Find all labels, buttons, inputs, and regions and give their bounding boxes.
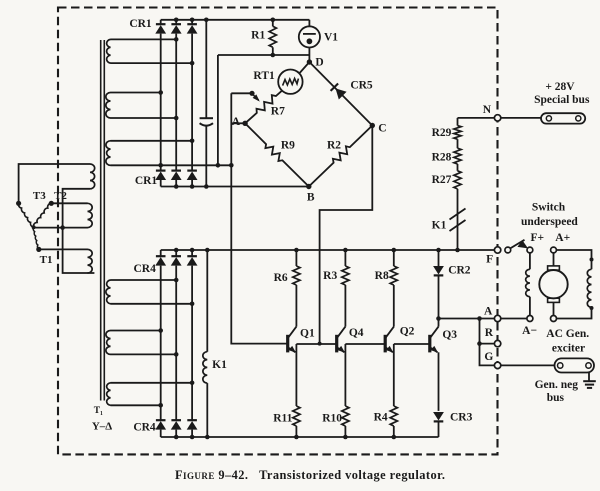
wire L3 bottom lead	[111, 404, 161, 406]
diode CR4 phase-2 top	[171, 250, 182, 420]
svg-text:R10: R10	[322, 413, 342, 425]
resistor R10	[342, 406, 349, 437]
winding P2 (primary middle)	[88, 203, 93, 227]
terminal N	[494, 115, 500, 121]
bus bar Gen neg bus	[555, 358, 595, 372]
switch blade	[510, 240, 528, 249]
node U3 lead to sense wire	[229, 163, 234, 168]
wire P2 bottom lead from star center	[34, 227, 88, 229]
label underspeed	[521, 216, 578, 228]
svg-text:Q2: Q2	[400, 326, 415, 338]
wire Q3 collector to CR2/A junction	[438, 319, 440, 327]
svg-text:underspeed: underspeed	[521, 216, 578, 228]
svg-text:Switch: Switch	[532, 201, 566, 213]
node rail-capacitor column	[204, 18, 209, 23]
coil T1 winding (Y leg)	[33, 227, 39, 249]
wire Q3 emitter vertical	[438, 352, 440, 411]
wire K1 coil column upper	[206, 250, 208, 352]
wire link A-R	[480, 319, 495, 344]
node rail-CR2	[436, 248, 441, 253]
diode CR5 (on C-D arm, pointing to D)	[331, 84, 347, 100]
svg-text:T3: T3	[33, 190, 46, 202]
label K1 (contact)	[432, 220, 447, 232]
winding L2 (secondary)	[106, 331, 111, 355]
node link at R	[477, 341, 482, 346]
transformer T1 core (double line)	[101, 40, 105, 401]
resistor R2 on C-B arm	[309, 126, 373, 187]
label Special bus	[534, 94, 590, 106]
label bus	[547, 392, 565, 404]
arrow R7 wiper	[253, 94, 260, 101]
svg-text:CR1: CR1	[129, 18, 152, 30]
node on series coil wire (bottom)	[590, 306, 594, 310]
svg-text:R2: R2	[327, 140, 341, 152]
svg-text:A: A	[232, 116, 241, 128]
brush bottom	[548, 298, 560, 302]
node rail-K1 column	[205, 248, 210, 253]
svg-text:R: R	[485, 327, 494, 339]
svg-text:exciter: exciter	[552, 343, 585, 355]
label R6	[274, 272, 288, 284]
resistor R4	[390, 406, 397, 437]
diode CR1 phase-1 top	[155, 20, 166, 171]
label CR1 (bottom row)	[135, 175, 158, 187]
wire L2 bottom lead	[111, 353, 177, 355]
node junction on link vertical	[60, 225, 65, 230]
armature of AC generator exciter	[539, 270, 567, 298]
svg-text:N: N	[483, 104, 492, 116]
svg-text:K1: K1	[212, 359, 227, 371]
diode CR1 phase-2 bottom	[171, 171, 182, 187]
svg-text:D: D	[315, 57, 323, 69]
label G	[484, 351, 493, 363]
wire T3 riser and P1 top lead	[19, 164, 90, 203]
node D	[307, 59, 312, 64]
winding P1 (primary top)	[90, 164, 95, 189]
node bottom rail junction	[205, 435, 210, 440]
diode CR4 phase-3 bottom	[187, 420, 198, 437]
resistor R11	[293, 406, 300, 437]
terminal circle on A- line (field)	[527, 316, 533, 322]
node neg rail col3	[190, 184, 195, 189]
wire U3 bottom lead	[111, 164, 232, 166]
ground symbol	[583, 373, 596, 388]
label R4	[374, 411, 388, 423]
winding L1 (secondary)	[106, 280, 111, 304]
label Q4	[349, 327, 364, 339]
node T1 terminal dot	[36, 247, 41, 252]
wire drop from R1 node to phase lead	[217, 55, 219, 165]
label A+	[555, 232, 570, 244]
diode CR1 phase-3 top	[187, 20, 198, 171]
node Y star center	[32, 225, 36, 229]
diode CR4 phase-2 bottom	[171, 420, 182, 437]
wire P3 top lead from T1	[39, 248, 88, 250]
svg-text:B: B	[307, 192, 315, 204]
node L3 top to column 3	[190, 381, 195, 386]
svg-text:Y–Δ: Y–Δ	[92, 421, 112, 433]
node A	[242, 121, 247, 126]
node A line to R/G link	[477, 316, 482, 321]
resistor R28	[454, 139, 461, 164]
label R28	[432, 152, 452, 164]
terminal R	[494, 340, 500, 346]
switch underspeed left contact	[505, 247, 511, 253]
node rail-col2	[174, 248, 179, 253]
svg-text:R9: R9	[281, 140, 295, 152]
label R8	[375, 270, 389, 282]
svg-text:bus: bus	[547, 392, 565, 404]
bus bar +28V special bus	[541, 113, 585, 123]
field coil (F side)	[526, 269, 530, 296]
label A (terminal)	[484, 306, 493, 318]
node T3 terminal dot	[16, 201, 21, 206]
wire R27 to K1 contact	[457, 189, 459, 250]
wire sense vertical (wiper/A to Q1 base)	[231, 93, 287, 343]
node L3 bottom to column 1	[158, 403, 163, 408]
label N	[483, 104, 492, 116]
node rail-col3	[190, 248, 195, 253]
wire K1 coil column lower	[206, 383, 208, 437]
label CR4 (top row)	[134, 263, 157, 275]
transistor Q3	[430, 327, 439, 353]
wire U2 top lead	[111, 92, 161, 94]
label R2	[327, 140, 341, 152]
diode CR4 phase-1 top	[155, 250, 166, 420]
label CR2	[448, 265, 471, 277]
svg-text:A−: A−	[522, 325, 537, 337]
svg-text:T1: T1	[40, 254, 53, 266]
label R29	[432, 127, 452, 139]
resistor R8	[390, 250, 397, 327]
terminal G	[494, 362, 500, 368]
label RT1	[253, 70, 275, 82]
svg-text:V1: V1	[324, 31, 338, 43]
wire bottom negative rail	[161, 436, 439, 438]
label A-	[522, 325, 537, 337]
wire L3 top lead	[111, 382, 193, 384]
label Q1	[300, 328, 315, 340]
label Switch	[532, 201, 566, 213]
svg-text:T₁: T₁	[94, 406, 103, 416]
coil T2 winding (Y leg)	[33, 203, 51, 227]
diode CR2	[433, 250, 444, 319]
svg-text:R11: R11	[273, 413, 292, 425]
wire main positive rail (to F)	[161, 249, 495, 251]
wire Q2 emitter vertical / to Q3 base	[394, 344, 430, 406]
thermistor RT1 (circle with zigzag) on D-A arm	[278, 62, 309, 94]
resistor R27	[454, 164, 461, 189]
wire L1 top lead	[111, 279, 177, 281]
node U1 top to column 2	[174, 37, 179, 42]
wire A line from Q3 junction to exciter	[439, 318, 528, 320]
svg-text:R1: R1	[251, 30, 265, 42]
label Y-delta	[92, 421, 112, 433]
svg-text:Q3: Q3	[442, 329, 457, 341]
wire A+ to right series coil	[556, 250, 591, 269]
label R27	[432, 174, 452, 186]
node bottom rail junction	[174, 435, 179, 440]
svg-text:G: G	[484, 351, 493, 363]
node rail-column2	[174, 18, 179, 23]
label R11	[273, 413, 292, 425]
label Q3	[442, 329, 457, 341]
node rail-R8	[392, 248, 397, 253]
svg-text:Q4: Q4	[349, 327, 364, 339]
winding U3 (secondary)	[106, 141, 111, 166]
svg-text:R7: R7	[271, 106, 285, 118]
label B	[307, 192, 315, 204]
label Q2	[400, 326, 415, 338]
relay contact K1 (slashes)	[450, 209, 466, 232]
svg-text:AC Gen.: AC Gen.	[546, 328, 589, 340]
switch right contact / F+ terminal	[527, 247, 533, 253]
node on series coil wire (top)	[590, 258, 594, 262]
label R1	[251, 30, 265, 42]
svg-text:R29: R29	[432, 127, 452, 139]
terminal F	[494, 247, 500, 253]
wire link R-G	[480, 344, 495, 366]
node neg rail capacitor column	[204, 184, 209, 189]
label D	[315, 57, 323, 69]
svg-text:R8: R8	[375, 270, 389, 282]
svg-text:A: A	[484, 306, 493, 318]
node U3 lead to R1 drop wire	[216, 163, 221, 168]
wire L1 bottom lead	[111, 303, 193, 305]
svg-text:R3: R3	[323, 270, 337, 282]
resistor R29	[454, 118, 461, 139]
label R10	[322, 413, 342, 425]
node rail-column3	[190, 18, 195, 23]
diode CR1 phase-3 bottom	[187, 171, 198, 187]
label C	[378, 123, 386, 135]
wire Q1 emitter vertical / to Q4 base	[296, 344, 336, 406]
wire F+ to field coil	[529, 253, 531, 269]
label T1 core subscript	[94, 406, 103, 416]
svg-text:A+: A+	[555, 232, 570, 244]
capacitor C1 (filter)	[200, 118, 213, 126]
node U2 top to column 1	[158, 90, 163, 95]
svg-text:T2: T2	[54, 190, 67, 202]
wire top positive rail	[161, 19, 310, 21]
wire U1 bottom lead	[111, 62, 193, 64]
svg-text:Q1: Q1	[300, 328, 315, 340]
wire U1 top lead	[111, 38, 177, 40]
node U2 bottom to column 2	[174, 116, 179, 121]
diode CR4 phase-1 bottom	[155, 420, 166, 437]
svg-text:CR3: CR3	[450, 411, 473, 423]
wire series coil to A- line	[557, 307, 592, 318]
label F+	[531, 232, 545, 244]
node bottom rail junction	[190, 435, 195, 440]
wire field coil to A- line	[529, 297, 531, 316]
node bottom rail junction	[392, 435, 397, 440]
node rail-R27 stack	[455, 248, 460, 253]
label AC Gen.	[546, 328, 589, 340]
wire P1 bottom lead / link vertical / P3 bottom lead	[63, 189, 95, 273]
node L2 bottom to column 2	[174, 352, 179, 357]
label F	[486, 254, 493, 266]
coil T3 winding (Y leg)	[18, 203, 33, 227]
node L2 top to column 1	[158, 328, 163, 333]
brush top	[548, 266, 560, 270]
relay coil K1	[203, 352, 207, 383]
wire R7 wiper lead	[231, 92, 252, 94]
node rail-R6	[294, 248, 299, 253]
svg-text:F+: F+	[531, 232, 545, 244]
label V1	[324, 31, 338, 43]
svg-text:F: F	[486, 254, 493, 266]
resistor R3	[342, 250, 349, 327]
node bottom rail junction	[294, 435, 299, 440]
wire negative rail of upper rectifier to node B	[161, 186, 309, 188]
svg-text:CR2: CR2	[448, 265, 471, 277]
label CR1 (top row)	[129, 18, 152, 30]
label T2	[54, 190, 67, 202]
winding U1 (secondary)	[107, 39, 111, 63]
node Q3 collector junction	[436, 316, 441, 321]
node rail-R3	[343, 248, 348, 253]
svg-text:RT1: RT1	[253, 70, 275, 82]
svg-text:CR4: CR4	[134, 263, 157, 275]
svg-text:Special bus: Special bus	[534, 94, 590, 106]
wire Q4 emitter vertical / to Q2 base	[345, 344, 385, 406]
wire R1 bottom horizontal	[218, 54, 310, 56]
wire capacitor column lower	[205, 126, 207, 187]
wire G to gen neg bus	[501, 364, 555, 366]
label R7	[271, 106, 285, 118]
node U1 bottom to column 3	[190, 61, 195, 66]
label R	[485, 327, 494, 339]
node rail-R1	[271, 18, 276, 23]
node L1 bottom to column 3	[190, 302, 195, 307]
label K1 (coil)	[212, 359, 227, 371]
resistor R7 on arm (RT1 circle to A)	[245, 91, 282, 124]
label R3	[323, 270, 337, 282]
terminal circle on A- line (armature)	[551, 316, 557, 322]
svg-text:CR5: CR5	[350, 79, 373, 91]
label Gen. neg	[535, 379, 579, 391]
node T2 terminal dot	[49, 201, 54, 206]
resistor R6	[293, 250, 300, 327]
diode CR1 phase-2 top	[171, 20, 182, 171]
winding L3 (secondary)	[107, 383, 111, 406]
node B	[306, 184, 311, 189]
node C-feed joins Q4 base	[318, 342, 322, 346]
wire bottom brush to A- line	[553, 302, 555, 315]
wire D-C arm	[309, 62, 372, 126]
diode CR1 phase-1 bottom	[155, 171, 166, 187]
svg-text:+ 28V: + 28V	[545, 81, 575, 93]
diode CR4 phase-3 top	[187, 250, 198, 420]
wire A+ down to brush	[553, 253, 555, 266]
label T3	[33, 190, 46, 202]
label CR4 (bottom row)	[133, 422, 156, 434]
label +28V	[545, 81, 575, 93]
diode CR3	[433, 412, 444, 437]
svg-text:C: C	[378, 123, 386, 135]
svg-text:CR1: CR1	[135, 175, 158, 187]
label A (bridge)	[232, 116, 241, 128]
node U3 bottom to column 1	[158, 163, 163, 168]
wire capacitor column upper	[205, 20, 207, 118]
wire L2 top lead	[111, 330, 161, 332]
transistor Q4	[337, 327, 346, 353]
winding U2 (secondary)	[106, 93, 111, 119]
terminal A	[494, 315, 500, 321]
svg-text:Figure 9–42. Transistorized: Figure 9–42. Transistorized voltage regu…	[175, 468, 445, 482]
node C	[370, 123, 375, 128]
node L1 top to column 2	[174, 278, 179, 283]
wire P2 top lead from T2	[51, 202, 87, 204]
terminal A+ circle	[551, 247, 557, 253]
label CR3	[450, 411, 473, 423]
svg-text:R6: R6	[274, 272, 288, 284]
node R7 wiper dot	[249, 91, 254, 96]
wire N bus line	[458, 117, 542, 119]
node bottom rail junction	[343, 435, 348, 440]
node neg rail col2	[174, 184, 179, 189]
svg-text:R27: R27	[432, 174, 452, 186]
label exciter	[552, 343, 585, 355]
svg-text:Gen. neg: Gen. neg	[535, 379, 579, 391]
svg-text:K1: K1	[432, 220, 447, 232]
winding P3 (primary bottom)	[88, 249, 93, 273]
wire A to sense vertical	[231, 122, 245, 124]
svg-text:CR4: CR4	[133, 422, 156, 434]
transistor Q2	[385, 327, 394, 353]
transistor Q1	[288, 327, 297, 353]
resistor R9 on A-B arm	[245, 123, 309, 186]
resistor R1	[269, 20, 276, 55]
label T1	[40, 254, 53, 266]
lamp V1	[299, 20, 320, 62]
caption Figure 9-42	[175, 468, 445, 482]
series coil (A side)	[587, 269, 591, 307]
svg-text:R4: R4	[374, 411, 388, 423]
dashed border of voltage-regulator box	[58, 8, 498, 455]
wire C feed down	[320, 126, 373, 344]
wire U3 top lead	[111, 140, 193, 142]
wire U2 bottom lead	[111, 117, 177, 119]
node R1 bottom junction	[271, 53, 276, 58]
svg-text:R28: R28	[432, 152, 452, 164]
label R9	[281, 140, 295, 152]
label CR5	[350, 79, 373, 91]
node U3 top to column 3	[190, 139, 195, 144]
